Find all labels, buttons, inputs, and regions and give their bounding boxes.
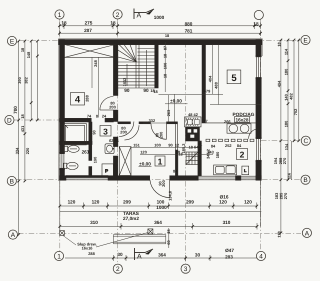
right ticks	[280, 39, 301, 235]
room 5 label	[227, 70, 241, 84]
interior wall grid2 seg2	[113, 110, 118, 122]
post 1	[60, 231, 65, 236]
washing machine P	[102, 164, 113, 176]
corridor wall segC	[167, 122, 178, 124]
entry steps	[113, 235, 165, 244]
bottom dim row 1	[60, 203, 257, 210]
svg-text:200: 200	[109, 105, 116, 110]
svg-text:PODCIĄG: PODCIĄG	[233, 112, 255, 117]
svg-text:A: A	[11, 232, 16, 239]
svg-text:190: 190	[93, 157, 98, 164]
svg-text:382: 382	[24, 76, 29, 83]
svg-text:A: A	[137, 254, 142, 261]
stair dim col	[164, 42, 166, 92]
svg-text:116: 116	[286, 172, 291, 179]
level mark 2	[139, 161, 152, 166]
terrace left edge	[59, 180, 61, 234]
room 3 label	[100, 126, 111, 137]
svg-text:287: 287	[84, 28, 92, 33]
svg-text:275: 275	[85, 21, 93, 26]
svg-text:288: 288	[88, 251, 95, 256]
svg-text:3: 3	[184, 266, 188, 273]
right dim col lines	[281, 40, 299, 233]
svg-text:A: A	[305, 230, 310, 237]
svg-text:180: 180	[283, 121, 288, 128]
kitchen sink unit	[214, 165, 237, 175]
svg-text:±0,00: ±0,00	[139, 161, 151, 166]
terrace door leaf and arc	[150, 180, 170, 198]
svg-text:700: 700	[13, 106, 18, 114]
circle 1 bottom	[54, 251, 63, 260]
svg-text:334: 334	[15, 147, 20, 154]
svg-text:180: 180	[215, 152, 220, 159]
svg-text:48 42: 48 42	[188, 112, 199, 117]
svg-text:270: 270	[283, 193, 288, 200]
svg-text:62 51: 62 51	[109, 138, 120, 143]
svg-text:B: B	[10, 179, 14, 186]
room 4 label	[71, 93, 85, 106]
svg-text:781: 781	[185, 28, 193, 33]
leader lines posts	[63, 233, 148, 248]
svg-text:100: 100	[154, 143, 161, 148]
svg-text:114: 114	[283, 48, 288, 55]
chimney block dark	[186, 127, 200, 141]
bathroom south inner wall	[66, 176, 108, 178]
circle B right	[301, 175, 310, 184]
grid line 4 vertical	[260, 19, 262, 252]
section marker A top	[134, 9, 154, 20]
svg-text:18: 18	[110, 21, 116, 26]
svg-text:200: 200	[159, 132, 164, 139]
svg-text:1000: 1000	[156, 205, 167, 210]
svg-text:±0,00: ±0,00	[170, 99, 182, 104]
top dim ticks	[58, 25, 262, 35]
counter dashed line	[206, 139, 210, 141]
svg-text:404: 404	[208, 75, 213, 82]
terrace edge line	[60, 211, 261, 213]
svg-text:30: 30	[195, 253, 201, 258]
chimney flue marks	[186, 118, 199, 126]
interior wall grid2 seg3	[113, 137, 118, 147]
window right wall lower	[256, 138, 260, 161]
bottom dim row 3	[65, 255, 261, 261]
room 2 label	[237, 149, 248, 160]
wall shower vertical	[89, 122, 92, 145]
room 4 interior dims	[91, 57, 93, 88]
svg-text:151: 151	[133, 143, 140, 148]
svg-text:18 64: 18 64	[189, 145, 200, 150]
grid line 1 vertical	[59, 18, 61, 252]
chimney flue holes	[188, 129, 192, 132]
svg-text:2: 2	[240, 149, 245, 159]
wall wc divider horizontal	[60, 141, 93, 144]
svg-text:Ø47: Ø47	[225, 248, 234, 253]
wc 1	[64, 145, 79, 152]
dishwasher	[242, 166, 249, 175]
svg-text:266: 266	[224, 119, 231, 124]
circle E right	[301, 35, 310, 44]
svg-text:431: 431	[20, 125, 25, 132]
svg-text:120: 120	[244, 200, 252, 205]
washbasin	[105, 144, 114, 154]
entry steps dims	[168, 228, 170, 248]
svg-text:209: 209	[186, 200, 194, 205]
bottom wall pier 5	[256, 176, 261, 181]
svg-text:1: 1	[158, 156, 163, 166]
stair block	[118, 44, 155, 88]
room 1 label	[155, 156, 165, 166]
svg-text:482: 482	[288, 92, 293, 99]
svg-text:1: 1	[57, 254, 61, 261]
svg-text:90: 90	[124, 88, 130, 93]
shower tray	[64, 124, 87, 145]
svg-text:100: 100	[162, 63, 167, 70]
svg-text:390: 390	[17, 77, 22, 84]
svg-text:118: 118	[276, 231, 281, 238]
grid line 2 vertical	[117, 18, 119, 264]
svg-text:1000: 1000	[154, 15, 165, 20]
svg-text:702: 702	[293, 108, 298, 115]
svg-text:180: 180	[283, 69, 288, 76]
svg-text:4: 4	[75, 95, 81, 106]
interior wall grid2 seg1	[113, 45, 118, 96]
interior wall grid2 seg4	[113, 156, 118, 176]
circle 1 top	[55, 10, 64, 19]
wall room4/room3 left	[60, 118, 92, 122]
terrace right edge	[260, 180, 262, 226]
chimney outline	[185, 117, 202, 127]
left ticks	[17, 40, 38, 236]
window caps	[256, 56, 261, 57]
room5 left wall	[202, 45, 206, 124]
svg-text:134: 134	[284, 143, 289, 150]
svg-text:18: 18	[61, 21, 67, 26]
bottom window 3	[241, 176, 256, 180]
svg-text:310: 310	[223, 220, 231, 225]
door arc corridor 1	[124, 125, 139, 140]
svg-text:16x16: 16x16	[82, 246, 94, 251]
circle 2 bottom	[113, 264, 122, 273]
basement stair wall left	[175, 150, 178, 176]
grid line A horizontal	[18, 233, 301, 235]
svg-text:200: 200	[120, 130, 127, 135]
svg-text:261: 261	[82, 149, 90, 154]
svg-text:209: 209	[123, 200, 131, 205]
svg-text:1012: 1012	[122, 77, 127, 86]
svg-text:E: E	[10, 39, 15, 46]
svg-text:2: 2	[116, 266, 120, 273]
svg-text:1: 1	[58, 12, 62, 19]
circle A left	[8, 230, 17, 239]
left exterior wall upper	[60, 40, 65, 154]
door arc room4	[100, 97, 114, 111]
section marker A bottom	[135, 248, 154, 261]
svg-text:880: 880	[185, 21, 193, 26]
svg-text:200: 200	[161, 180, 166, 187]
room5 dims	[212, 45, 214, 95]
grid line C horizontal	[261, 140, 300, 142]
window W left wall	[60, 153, 64, 169]
closet X top-left	[64, 45, 115, 58]
svg-text:16x28: 16x28	[235, 117, 248, 122]
svg-text:270: 270	[282, 158, 287, 165]
burner 2	[240, 124, 249, 133]
svg-text:364: 364	[154, 220, 162, 225]
bottom wall pier 1	[60, 176, 67, 181]
svg-text:77: 77	[203, 118, 207, 123]
svg-text:18: 18	[253, 21, 259, 26]
svg-text:345,2: 345,2	[205, 148, 210, 159]
door arc room3	[119, 122, 134, 137]
right exterior wall seg2	[256, 78, 261, 138]
circle A right	[302, 228, 311, 237]
circle 4 top	[254, 10, 263, 19]
svg-text:120: 120	[219, 200, 227, 205]
svg-text:60: 60	[166, 240, 171, 244]
wall wc/bath pier	[89, 167, 92, 176]
svg-text:134,6: 134,6	[168, 190, 173, 201]
post 2	[148, 229, 153, 234]
stairs right wall	[155, 42, 159, 88]
svg-text:494: 494	[276, 80, 281, 87]
svg-text:252: 252	[225, 143, 232, 148]
top dim row 1	[60, 23, 261, 30]
svg-text:4: 4	[259, 254, 263, 261]
svg-text:Ø16: Ø16	[220, 194, 229, 199]
svg-text:87: 87	[162, 46, 167, 50]
bottom wall pier 2	[108, 176, 150, 181]
wall room4/room3 right	[105, 118, 113, 122]
circle D left	[5, 115, 14, 124]
right exterior wall seg1	[256, 40, 261, 57]
wardrobe X dining	[119, 147, 131, 176]
svg-text:488: 488	[213, 81, 218, 88]
svg-text:D: D	[7, 118, 12, 125]
svg-text:120: 120	[140, 150, 147, 155]
svg-text:148: 148	[26, 51, 31, 58]
svg-text:120: 120	[92, 200, 100, 205]
svg-text:90: 90	[92, 130, 97, 134]
wall wc/bath vertical	[89, 145, 92, 161]
svg-text:2: 2	[116, 12, 120, 19]
svg-text:310: 310	[90, 220, 98, 225]
grid line E horizontal	[20, 40, 300, 42]
bottom window 1	[66, 178, 108, 180]
svg-text:364: 364	[158, 253, 166, 258]
circle 4 bottom	[256, 251, 265, 260]
svg-text:5: 5	[231, 73, 237, 84]
circle 3 bottom	[181, 264, 190, 273]
circle B left	[7, 176, 16, 185]
bottom wall pier 4	[236, 176, 241, 181]
grid line D horizontal	[14, 119, 60, 121]
svg-text:P: P	[105, 168, 108, 173]
svg-text:A: A	[137, 13, 142, 20]
wc 2	[63, 162, 78, 169]
svg-text:27,0m2: 27,0m2	[123, 216, 139, 221]
door arc corridor 2	[151, 124, 167, 140]
left dim col lines	[19, 41, 38, 235]
bottom dim row 2	[60, 223, 257, 230]
circle C right	[301, 136, 310, 145]
burner 1	[229, 124, 238, 133]
left exterior wall lower	[60, 169, 65, 180]
level mark 1	[165, 99, 188, 104]
svg-text:283: 283	[225, 254, 233, 259]
svg-text:288: 288	[85, 94, 90, 101]
svg-text:B: B	[303, 177, 307, 184]
svg-text:90: 90	[143, 88, 149, 93]
corridor wall segA	[118, 122, 131, 124]
bottom window 2	[198, 176, 235, 180]
door arc kitchen	[249, 129, 259, 139]
svg-text:479: 479	[204, 89, 211, 94]
svg-text:30: 30	[117, 252, 123, 257]
svg-text:90: 90	[168, 143, 172, 148]
svg-text:332: 332	[149, 118, 156, 123]
window right wall upper	[256, 56, 260, 78]
svg-text:220: 220	[25, 148, 30, 155]
kitchen beam line	[206, 122, 256, 124]
svg-text:120: 120	[68, 200, 76, 205]
svg-text:3: 3	[103, 126, 108, 136]
circle 2 top	[113, 10, 122, 19]
grid line B horizontal	[16, 179, 300, 181]
svg-text:C: C	[303, 138, 308, 145]
svg-text:248: 248	[93, 59, 98, 66]
circle E left	[7, 36, 16, 45]
grid line 3 vertical	[185, 42, 187, 264]
corridor wall segB	[139, 122, 151, 124]
outer face line	[59, 39, 263, 181]
right exterior wall seg3	[256, 161, 261, 180]
top dim row 2	[60, 31, 261, 37]
cooktop counter	[227, 124, 251, 133]
top exterior wall	[59, 40, 263, 45]
svg-text:E: E	[303, 38, 308, 45]
bottom wall pier 3	[170, 176, 199, 181]
basement stair wall right	[198, 141, 202, 176]
